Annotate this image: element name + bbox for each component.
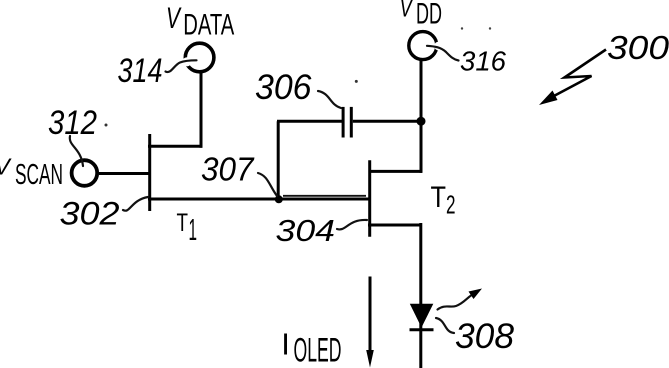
svg-text:I: I	[281, 327, 290, 362]
svg-text:312: 312	[48, 104, 97, 142]
svg-text:2: 2	[446, 190, 456, 220]
svg-text:V: V	[166, 2, 182, 35]
svg-text:OLED: OLED	[294, 332, 342, 368]
svg-text:302: 302	[60, 196, 120, 232]
svg-text:307: 307	[201, 150, 255, 187]
svg-text:T: T	[431, 181, 447, 214]
svg-text:316: 316	[460, 46, 506, 77]
svg-text:300: 300	[607, 29, 669, 66]
svg-text:SCAN: SCAN	[15, 159, 63, 191]
svg-text:314: 314	[118, 52, 163, 90]
svg-text:304: 304	[276, 213, 336, 248]
svg-text:1: 1	[189, 212, 198, 247]
svg-text:DD: DD	[416, 0, 442, 30]
svg-text:306: 306	[255, 68, 312, 107]
svg-text:308: 308	[455, 317, 515, 356]
svg-text:DATA: DATA	[183, 9, 234, 42]
svg-text:T: T	[177, 209, 189, 237]
svg-text:V: V	[400, 0, 414, 23]
